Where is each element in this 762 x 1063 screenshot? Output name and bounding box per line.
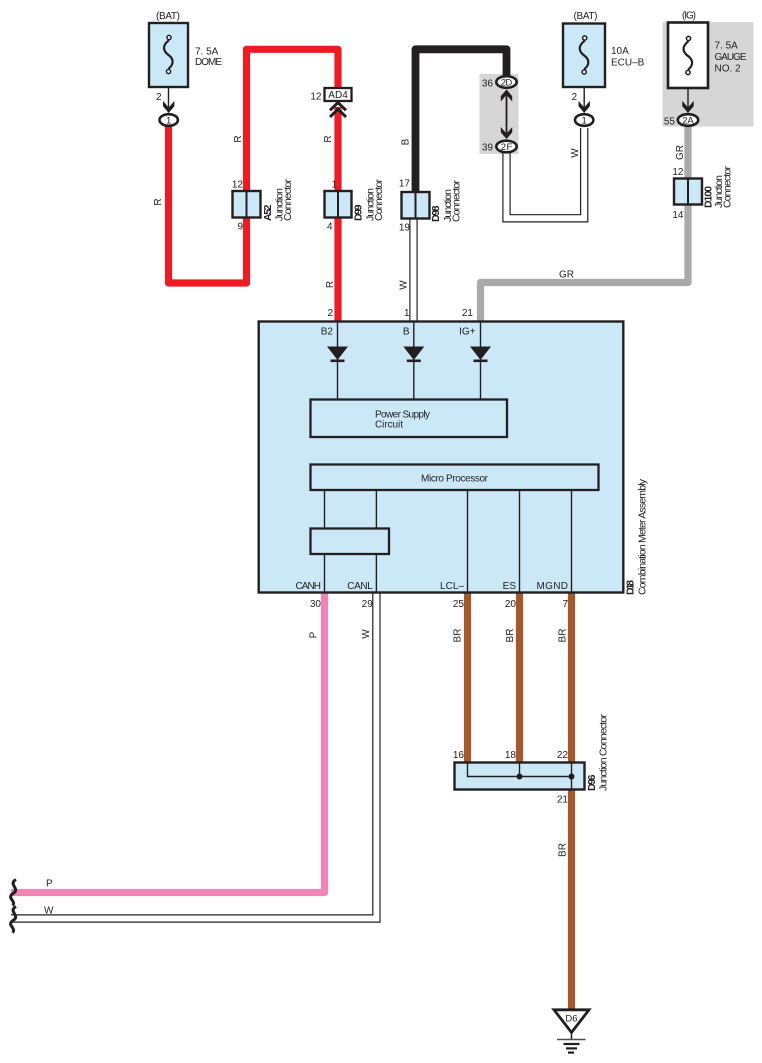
internal line MGND (571, 490, 573, 592)
svg-text:16: 16 (453, 750, 465, 761)
svg-text:1: 1 (582, 116, 587, 127)
svg-text:2F: 2F (501, 142, 513, 153)
svg-text:Connector: Connector (373, 179, 385, 222)
svg-text:P: P (309, 631, 320, 638)
designation D18 Combination Meter Assembly (625, 478, 649, 595)
svg-text:W: W (361, 629, 372, 639)
svg-text:GAUGE: GAUGE (715, 52, 747, 63)
svg-text:2D: 2D (501, 77, 513, 88)
svg-text:29: 29 (362, 599, 374, 610)
svg-text:R: R (233, 135, 244, 142)
svg-text:1: 1 (404, 308, 410, 319)
svg-text:14: 14 (672, 210, 684, 221)
shaded region around IG fuse (663, 22, 754, 127)
svg-text:36: 36 (482, 79, 494, 90)
combination meter assembly D18 box (259, 322, 624, 593)
svg-text:7: 7 (562, 599, 568, 610)
junction connector D99 (325, 179, 386, 233)
svg-text:Circuit: Circuit (375, 419, 403, 430)
svg-text:9: 9 (237, 222, 243, 233)
svg-text:MGND: MGND (537, 581, 569, 592)
svg-text:BR: BR (505, 629, 516, 643)
break squiggle on wire P (11, 880, 16, 906)
svg-text:ES: ES (503, 581, 517, 592)
diode D2 (B input) (403, 323, 424, 400)
svg-text:10A: 10A (611, 46, 629, 57)
svg-text:D98: D98 (430, 205, 442, 222)
svg-text:R: R (153, 198, 164, 205)
svg-text:D99: D99 (353, 204, 365, 221)
svg-text:W: W (44, 906, 54, 917)
diode D1 (B2 input) (327, 323, 348, 400)
power supply circuit block (311, 400, 508, 438)
wire B: from D98 pin 17 up, right, down to oval 2D (416, 49, 507, 194)
svg-text:NO. 2: NO. 2 (715, 64, 742, 75)
CAN transceiver block (311, 529, 390, 555)
svg-text:7. 5A: 7. 5A (715, 41, 739, 52)
svg-text:GR: GR (675, 145, 686, 160)
svg-text:21: 21 (462, 308, 474, 319)
shaded region behind connector ovals 2D/2F (480, 74, 519, 154)
svg-text:B: B (403, 327, 410, 338)
svg-text:CANH: CANH (296, 581, 322, 592)
svg-text:D18: D18 (625, 580, 637, 595)
wire R: from AD4 chevron down through D99 to meter pin 2 (B2) (334, 107, 341, 324)
junction connector A52 (232, 179, 294, 233)
svg-text:BR: BR (558, 843, 569, 857)
DOME fuse pin 2 arrow and connector oval 1 (156, 87, 178, 127)
svg-text:A52: A52 (262, 204, 274, 221)
svg-text:Junction Connector: Junction Connector (598, 714, 610, 792)
svg-text:21: 21 (557, 795, 569, 806)
internal line ES (519, 490, 521, 592)
fuse ECU-B 10A (BAT) (563, 11, 645, 87)
svg-text:30: 30 (310, 599, 322, 610)
svg-text:(BAT): (BAT) (574, 11, 598, 22)
fuse GAUGE NO.2 7.5A (IG) (668, 11, 747, 89)
svg-text:CANL: CANL (347, 581, 373, 592)
internal line CANH (324, 490, 326, 592)
svg-text:39: 39 (482, 143, 494, 154)
svg-text:(IG): (IG) (682, 11, 696, 22)
svg-text:BR: BR (453, 629, 464, 643)
svg-text:18: 18 (505, 750, 517, 761)
connector oval 2D pin 36 (482, 76, 517, 89)
wire BR: meter pin 7 (MGND) to D96 pin 22 (568, 592, 575, 764)
svg-text:2: 2 (327, 308, 333, 319)
svg-text:1: 1 (166, 116, 171, 127)
svg-text:(BAT): (BAT) (156, 11, 180, 22)
connector oval 2F pin 39 (482, 141, 517, 154)
svg-text:DOME: DOME (195, 57, 222, 68)
junction connector D96 (453, 714, 610, 806)
fuse DOME 7.5A (BAT) (149, 11, 222, 87)
svg-text:20: 20 (505, 599, 517, 610)
svg-text:R: R (323, 135, 334, 142)
svg-text:Connector: Connector (451, 180, 463, 223)
wire W: from meter pin 29 (CANL) down and left to page break (11, 592, 376, 919)
wire GR: from oval 2A down through D100, left, down to meter pin 21 (IG+) (481, 124, 689, 324)
svg-text:AD4: AD4 (328, 90, 348, 101)
wire R: DOME fuse oval 1 down, right, up through A52, right, down to AD4 (169, 49, 339, 283)
internal line CANL (375, 490, 377, 592)
svg-text:2A: 2A (682, 115, 694, 126)
svg-text:IG+: IG+ (459, 327, 476, 338)
svg-text:BR: BR (558, 629, 569, 643)
svg-text:Connector: Connector (722, 166, 734, 209)
svg-text:12: 12 (672, 167, 684, 178)
svg-text:Connector: Connector (282, 179, 294, 222)
ECU-B fuse pin 2 arrow and connector oval 1 (571, 87, 593, 127)
wire BR: meter pin 20 (ES) to D96 pin 18 (516, 592, 523, 764)
IG fuse pin 55 arrow and connector oval 2A (664, 88, 698, 128)
internal line LCL- (467, 490, 469, 592)
micro processor block (311, 465, 599, 491)
connector AD4 (to other page) (310, 88, 351, 117)
svg-text:17: 17 (399, 179, 411, 190)
junction connector D100 (672, 166, 733, 222)
svg-text:ECU–B: ECU–B (611, 58, 645, 69)
wire W: from D98 pin 19 down to meter pin 1 (B) (409, 216, 417, 324)
svg-text:55: 55 (664, 117, 676, 128)
svg-text:4: 4 (327, 222, 333, 233)
svg-text:D6: D6 (565, 1014, 577, 1025)
wire BR: meter pin 25 (LCL-) to D96 pin 16 (464, 592, 471, 764)
svg-text:25: 25 (453, 599, 465, 610)
svg-text:B: B (401, 138, 412, 145)
diode D3 (IG+ input) (470, 323, 491, 400)
wire W: from oval 2F down, right, up to ECU-B oval 1 (507, 128, 585, 218)
svg-text:2: 2 (156, 92, 162, 103)
double arrow between 2D and 2F (501, 90, 512, 140)
svg-text:D96: D96 (586, 774, 598, 791)
ground D6 (554, 1010, 589, 1053)
svg-text:Combination Meter Assembly: Combination Meter Assembly (637, 478, 649, 595)
svg-text:GR: GR (559, 270, 574, 281)
svg-text:1: 1 (331, 180, 337, 191)
wire BR: D96 pin 21 down to ground D6 (568, 788, 575, 1010)
svg-text:2: 2 (571, 92, 577, 103)
svg-text:LCL–: LCL– (440, 581, 464, 592)
junction connector D98 (399, 179, 463, 234)
svg-text:Micro Processor: Micro Processor (421, 474, 489, 485)
svg-text:W: W (399, 280, 410, 290)
svg-text:12: 12 (310, 92, 322, 103)
svg-text:W: W (570, 148, 581, 158)
svg-text:19: 19 (399, 223, 411, 234)
svg-text:R: R (325, 281, 336, 288)
svg-text:12: 12 (232, 180, 244, 191)
svg-text:B2: B2 (321, 327, 334, 338)
svg-text:22: 22 (557, 750, 569, 761)
break squiggle on wire W (11, 907, 16, 933)
svg-text:P: P (46, 879, 53, 890)
wire P: from meter pin 30 (CANH) down and left to page break (11, 592, 325, 893)
